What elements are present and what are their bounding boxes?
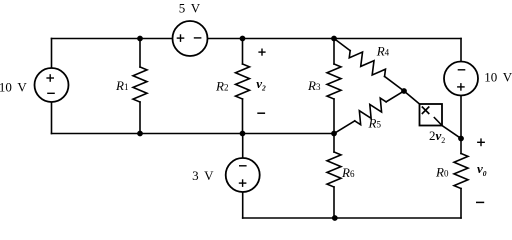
- wire bottom bus: [243, 217, 461, 219]
- svg-text:10 V: 10 V: [0, 80, 27, 95]
- wire 3V top lead: [242, 134, 244, 159]
- junction dot node R1 top: [137, 36, 143, 42]
- svg-text:10 V: 10 V: [484, 70, 512, 85]
- label + (v0): [477, 138, 485, 146]
- label - (v0): [476, 201, 484, 203]
- wire top bus left segment: [52, 38, 173, 40]
- wire multiplier box to right branch: [442, 126, 461, 139]
- wire right branch lower: [460, 189, 462, 219]
- junction dot node dependent source output: [458, 136, 464, 142]
- resistor R4: [334, 39, 404, 92]
- voltage source 3 V (bottom): [226, 158, 260, 192]
- junction dot node R3 bottom: [331, 131, 337, 137]
- resistor R6: [327, 134, 341, 219]
- wire middle bus: [52, 133, 335, 135]
- resistor R5: [334, 91, 404, 134]
- svg-text:5 V: 5 V: [179, 0, 201, 15]
- dependent source 2v2 (multiplier box): [420, 104, 443, 126]
- junction dot node R3 top: [331, 36, 337, 42]
- wire right branch upper: [460, 39, 462, 63]
- wire right branch mid: [460, 95, 462, 154]
- junction dot node R6 bottom: [332, 215, 338, 221]
- junction dot node R1 bottom: [137, 131, 143, 137]
- label - (v2): [257, 112, 265, 114]
- wire left branch upper: [51, 39, 53, 69]
- resistor R0: [454, 154, 468, 189]
- resistor R3: [327, 39, 341, 134]
- resistor R2: [236, 39, 250, 134]
- wire left branch lower: [51, 102, 53, 134]
- voltage source 5 V (top): [173, 21, 208, 56]
- junction dot node R4-R5 junction: [401, 88, 407, 94]
- voltage source 10 V (left): [35, 68, 69, 102]
- wire node to multiplier box: [404, 91, 420, 104]
- wire top bus right segment: [208, 38, 462, 40]
- voltage source 10 V (right): [444, 62, 478, 96]
- wire 3V bottom lead: [242, 192, 244, 219]
- junction dot node 3V top: [240, 131, 246, 137]
- junction dot node R2 top: [240, 36, 246, 42]
- svg-text:3 V: 3 V: [192, 168, 214, 183]
- resistor R1: [133, 39, 147, 134]
- label + (v2): [258, 49, 265, 56]
